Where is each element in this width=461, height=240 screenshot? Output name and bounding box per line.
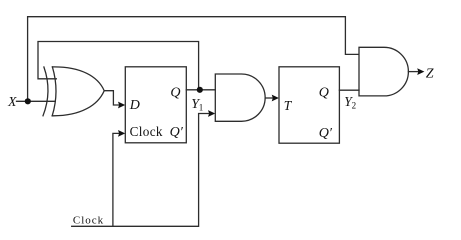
wire AND G2 output to T input of U2: [265, 97, 272, 99]
arrowhead at output Z: [417, 68, 424, 75]
wire AND G3 output to Z: [408, 71, 417, 73]
svg-text:Z: Z: [426, 67, 434, 82]
wire clock branch to Clock pin of U1: [113, 133, 119, 226]
arrowhead into T input: [272, 95, 279, 102]
svg-text:Q: Q: [170, 85, 180, 100]
wire XOR G1 output to D input of U1: [104, 91, 118, 105]
arrowhead into AND G2 lower input: [208, 110, 215, 117]
label Y2: [344, 94, 356, 111]
svg-text:1: 1: [199, 102, 204, 112]
wire second feedback from node Y1 to XOR G1 top input: [38, 42, 199, 89]
svg-text:Q′: Q′: [319, 126, 333, 141]
node X junction dot: [25, 98, 31, 104]
D flip-flop U1 box: [125, 67, 186, 143]
wire top feedback from X node to AND gate G3 top input: [28, 17, 359, 102]
svg-text:Q′: Q′: [170, 125, 184, 140]
svg-text:2: 2: [352, 101, 357, 111]
label Y1: [191, 97, 203, 113]
svg-text:D: D: [129, 98, 140, 113]
arrowhead into D input: [118, 102, 125, 109]
wire Clock line to AND G2 lower input: [72, 114, 209, 227]
wire input X to XOR G1 lower input: [17, 100, 56, 102]
T flip-flop U2 box: [279, 67, 339, 143]
AND gate G2: [215, 74, 265, 121]
XOR gate G1: [43, 67, 104, 116]
svg-text:Clock: Clock: [73, 215, 104, 227]
wire Q of U1 to AND G2 top input: [186, 89, 215, 91]
svg-text:Q: Q: [319, 85, 329, 100]
svg-text:Clock: Clock: [130, 124, 163, 139]
node Y1 junction dot: [197, 87, 203, 93]
AND gate G3: [359, 47, 408, 96]
svg-text:T: T: [284, 98, 293, 113]
wire Q of U2 to AND G3 lower input: [339, 89, 359, 91]
svg-text:X: X: [7, 94, 17, 109]
arrowhead into Clock pin: [118, 130, 125, 137]
